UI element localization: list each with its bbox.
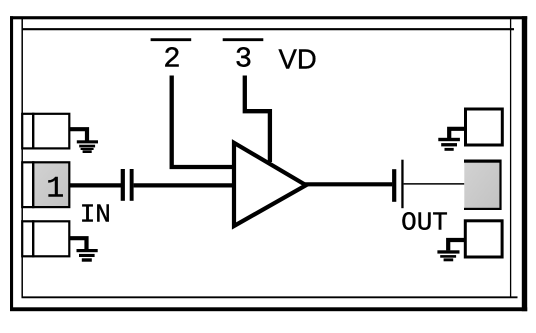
svg-text:IN: IN xyxy=(80,199,111,229)
capacitor C-in xyxy=(121,169,134,201)
pad OUT (middle-right) xyxy=(464,160,502,211)
svg-text:1: 1 xyxy=(46,173,64,207)
wire pin 3 xyxy=(245,76,270,163)
wire: output capacitor to OUT pad (thin) xyxy=(404,183,465,185)
ground bottom-right xyxy=(437,240,464,261)
svg-text:3: 3 xyxy=(235,43,252,76)
package outline inner xyxy=(22,18,518,298)
svg-text:OUT: OUT xyxy=(401,207,448,237)
svg-text:VD: VD xyxy=(278,44,316,75)
ground bottom-left xyxy=(69,238,98,261)
wire pin 2 xyxy=(172,76,234,168)
pin 2 overbar xyxy=(151,38,192,41)
ground top-right xyxy=(438,129,464,151)
pad top-left xyxy=(22,113,69,150)
op-amp / amplifier triangle A1 xyxy=(234,143,306,226)
pin 3 overbar xyxy=(223,38,264,41)
wire: input capacitor to amplifier xyxy=(134,183,233,187)
wire: amplifier output to output capacitor xyxy=(304,182,392,186)
wire: pad 1 to input capacitor xyxy=(69,183,122,187)
pad bottom-right xyxy=(465,221,502,257)
capacitor C-out xyxy=(392,160,403,209)
svg-text:2: 2 xyxy=(163,43,180,76)
pad 1 (IN), middle-left xyxy=(22,161,69,208)
pad bottom-left xyxy=(22,220,69,257)
pad top-right xyxy=(466,109,503,145)
ground top-left xyxy=(69,129,99,153)
